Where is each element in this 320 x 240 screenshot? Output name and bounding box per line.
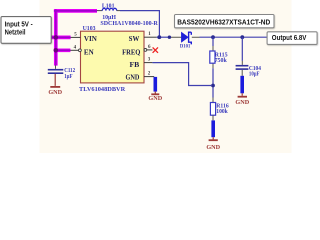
svg-text:1µF: 1µF: [64, 73, 72, 80]
svg-text:SW: SW: [129, 36, 140, 43]
svg-text:SDCHA1V8040-100-R: SDCHA1V8040-100-R: [100, 20, 158, 27]
wire C104 top lead: [241, 61, 243, 65]
svg-text:GND: GND: [48, 89, 62, 96]
resistor R116: [210, 103, 228, 116]
ground at pin 2: [148, 92, 162, 103]
pin 6 FREQ with bubble: [144, 49, 147, 52]
svg-text:750k: 750k: [215, 57, 228, 64]
svg-text:EN: EN: [84, 49, 94, 56]
svg-text:FREQ: FREQ: [122, 49, 140, 56]
wire from L101 down to SW: [120, 11, 159, 38]
diode D101 (Schottky): [180, 32, 191, 49]
resistor R115: [210, 51, 228, 64]
junction SW/inductor: [157, 35, 161, 39]
wire VOUT to C104: [241, 37, 243, 61]
ground below C104: [235, 93, 249, 106]
junction VOUT at R115: [211, 35, 215, 39]
svg-text:U103: U103: [83, 25, 96, 32]
svg-text:10µF: 10µF: [249, 71, 260, 78]
svg-text:FB: FB: [130, 62, 140, 69]
node Input 5V callout box: [1, 17, 51, 44]
wire R115 leads: [212, 46, 214, 68]
svg-text:BAS5202VH6327XTSA1CT-ND: BAS5202VH6327XTSA1CT-ND: [177, 18, 271, 27]
wire GND stub below C104 (thick): [240, 76, 244, 94]
wire D101 anode and cathode leads: [170, 36, 200, 38]
svg-text:VIN: VIN: [84, 36, 97, 43]
wire VOUT net: [200, 36, 268, 38]
wire R116 to gnd stub: [212, 115, 214, 120]
junction SW wire: [168, 36, 171, 39]
wire VIN net magenta to pin5: [51, 36, 71, 38]
svg-text:Netzteil: Netzteil: [5, 27, 26, 36]
sheet background: [40, 0, 292, 153]
inductor L101: [97, 3, 158, 27]
capacitor C104: [236, 65, 262, 78]
svg-text:GND: GND: [126, 75, 140, 82]
wire C104 bottom lead: [241, 70, 243, 76]
pin 4 EN with bubble: [70, 49, 78, 51]
svg-text:Output 6.8V: Output 6.8V: [272, 33, 307, 42]
svg-text:GND: GND: [148, 95, 162, 102]
junction on VIN net at pin5: [54, 35, 59, 40]
IC U103 body: [81, 31, 145, 83]
pin 2 GND: [144, 76, 154, 78]
node Output 6.8V callout box: [267, 32, 317, 45]
junction FB divider: [211, 84, 215, 88]
junction VOUT at C104: [240, 35, 244, 39]
pin 1 SW: [144, 36, 157, 38]
node BAS5202 part-number callout box: [175, 15, 275, 28]
svg-text:TLV61048DBVR: TLV61048DBVR: [79, 86, 125, 93]
wire GND stub below pin 2 (thick): [154, 77, 158, 92]
no-connect X on pin 6: [153, 47, 158, 52]
wire VOUT to R115: [212, 37, 214, 46]
pin 5 VIN: [71, 36, 81, 38]
capacitor C112: [48, 65, 75, 79]
svg-text:D101: D101: [180, 44, 191, 50]
svg-text:GND: GND: [206, 144, 220, 151]
ground below R116: [206, 137, 220, 151]
svg-text:GND: GND: [235, 99, 249, 106]
wire VIN net magenta top: [51, 9, 97, 66]
wire VIN net magenta vertical: [55, 9, 57, 65]
svg-text:L101: L101: [102, 3, 115, 10]
junction on VIN net at pin4: [54, 48, 59, 53]
wire GND stub below R116 (thick): [211, 120, 215, 137]
wire VIN net magenta to pin4: [56, 49, 71, 51]
ground below C112: [48, 74, 62, 96]
wire R115 to junction: [212, 68, 214, 97]
wire FB from pin 3 to divider: [152, 63, 211, 86]
pin 3 FB: [144, 62, 152, 64]
svg-text:100k: 100k: [216, 108, 228, 115]
wire R116 top lead: [212, 98, 214, 103]
wire SW node horizontal: [157, 36, 170, 38]
